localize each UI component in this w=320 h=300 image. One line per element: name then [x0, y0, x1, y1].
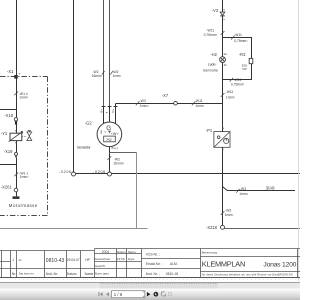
- svg-text:B+(-): B+(-): [112, 146, 119, 150]
- svg-text:Ersatz für ;: Ersatz für ;: [146, 262, 162, 266]
- svg-text:1mm²: 1mm²: [195, 104, 205, 108]
- svg-text:-P1: -P1: [206, 128, 213, 133]
- svg-text:Nr.: Nr.: [12, 272, 16, 276]
- svg-text:1mm²: 1mm²: [19, 96, 29, 100]
- svg-text:-X1: -X1: [7, 69, 14, 74]
- svg-text:Generator: Generator: [77, 146, 92, 150]
- svg-text:KLEMMPLAN: KLEMMPLAN: [202, 259, 246, 268]
- svg-text:-X206: -X206: [93, 170, 105, 174]
- svg-text:Das lesen ver.: Das lesen ver.: [19, 273, 34, 276]
- svg-text:Änd.-Nr.: Änd.-Nr.: [46, 272, 58, 276]
- svg-text:Gezeichnet: Gezeichnet: [95, 257, 110, 261]
- svg-text:Norm.gepr.: Norm.gepr.: [95, 271, 110, 275]
- svg-text:-W11: -W11: [195, 99, 203, 103]
- svg-text:1mm²: 1mm²: [225, 213, 235, 217]
- svg-text:>U: >U: [106, 137, 111, 142]
- svg-text:VCS-Nr. ;: VCS-Nr. ;: [146, 252, 160, 256]
- svg-text:-X19: -X19: [4, 149, 13, 154]
- svg-text:D+: D+: [111, 108, 115, 112]
- svg-text:0,75mm²: 0,75mm²: [231, 83, 245, 87]
- svg-text:-W3: -W3: [225, 208, 231, 212]
- svg-text:bupe: bupe: [128, 257, 135, 261]
- svg-text:B+: B+: [99, 109, 103, 113]
- svg-text:für diese Zeichnung behalten w: für diese Zeichnung behalten wir uns all…: [202, 272, 293, 276]
- svg-text:-W11: -W11: [206, 28, 214, 32]
- svg-text:HP: HP: [85, 258, 90, 262]
- svg-text:Datum: Datum: [67, 272, 77, 276]
- svg-text:Änd. Nr. ;: Änd. Nr. ;: [146, 272, 160, 276]
- svg-text:16mm²: 16mm²: [113, 162, 124, 166]
- svg-text:19.06.: 19.06.: [117, 257, 126, 261]
- svg-text:Geprüft: Geprüft: [95, 264, 105, 268]
- svg-text:-X201: -X201: [1, 184, 13, 189]
- svg-text:1mm²: 1mm²: [113, 74, 123, 78]
- svg-text:-G2: -G2: [85, 121, 93, 126]
- svg-text:W: W: [113, 132, 117, 136]
- svg-text:-X206: -X206: [59, 170, 71, 174]
- svg-text:0810-18: 0810-18: [166, 272, 178, 276]
- svg-text:-X7: -X7: [162, 93, 169, 98]
- svg-text:-R3: -R3: [239, 52, 246, 57]
- svg-text:0,75mm²: 0,75mm²: [204, 33, 218, 37]
- svg-text:0810-43: 0810-43: [46, 258, 65, 264]
- svg-text:-W11: -W11: [234, 33, 242, 37]
- svg-text:kontrolle: kontrolle: [203, 69, 218, 73]
- svg-text:Name: Name: [128, 250, 136, 254]
- svg-text:1mm²: 1mm²: [20, 175, 30, 179]
- svg-text:-W3: -W3: [140, 99, 146, 103]
- svg-text:2a: 2a: [224, 52, 228, 56]
- svg-text:16mm²: 16mm²: [92, 74, 103, 78]
- svg-text:Name: Name: [85, 272, 94, 276]
- svg-text:-V3: -V3: [212, 8, 219, 13]
- svg-text:1mm²: 1mm²: [226, 95, 236, 99]
- svg-text:-X18: -X18: [4, 113, 13, 118]
- svg-text:2004: 2004: [102, 250, 110, 254]
- svg-text:-W3: -W3: [240, 187, 246, 191]
- svg-text:Lade-: Lade-: [208, 62, 217, 66]
- svg-text:Jonas 1200: Jonas 1200: [263, 261, 296, 268]
- svg-text:2b: 2b: [224, 63, 228, 67]
- svg-text:-H2: -H2: [210, 52, 217, 57]
- svg-text:29.04.07: 29.04.07: [67, 258, 80, 262]
- svg-text:0,75mm²: 0,75mm²: [234, 39, 248, 43]
- svg-text:3/A8: 3/A8: [266, 185, 276, 190]
- svg-text:Motormasse: Motormasse: [9, 203, 38, 208]
- svg-text:-W11: -W11: [226, 90, 234, 94]
- svg-text:1mm²: 1mm²: [140, 104, 150, 108]
- svg-text:ULM.: ULM.: [170, 262, 178, 266]
- svg-text:Datum: Datum: [117, 250, 126, 254]
- svg-text:-Y1: -Y1: [1, 131, 8, 136]
- svg-text:Benennung: Benennung: [202, 250, 218, 254]
- svg-text:-X218: -X218: [206, 225, 218, 230]
- svg-text:5W: 5W: [242, 67, 247, 71]
- svg-text:-W11: -W11: [234, 78, 242, 82]
- svg-text:1 / 6: 1 / 6: [114, 292, 123, 297]
- svg-text:1mm²: 1mm²: [239, 192, 249, 196]
- svg-text:1x: 1x: [18, 258, 22, 262]
- svg-text:1: 1: [12, 258, 14, 262]
